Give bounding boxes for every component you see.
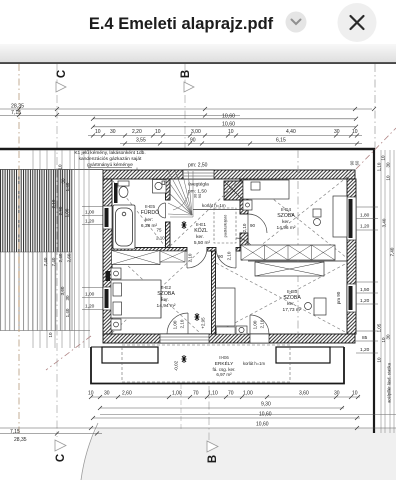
bottom dimension ticks (55, 395, 360, 436)
svg-text:2,60: 2,60 (67, 253, 72, 262)
window left wall upper (fürdő) (103, 206, 112, 229)
svg-text:6,15: 6,15 (276, 138, 286, 144)
door közl to II-E3 (lower right) (216, 248, 236, 268)
svg-text:14,94 m²: 14,94 m² (157, 303, 176, 309)
svg-text:7,40: 7,40 (43, 257, 48, 266)
bathtub (113, 205, 135, 249)
chimney K1 (224, 181, 243, 200)
svg-text:75: 75 (157, 228, 163, 233)
K1 chimney note (74, 150, 145, 168)
svg-text:K1 jelű kémény, lakásonként 1d: K1 jelű kémény, lakásonként 1db. (74, 150, 145, 156)
wardrobe II-E4 (241, 245, 335, 260)
sliding balcony door opening (bottom wall, II-E2) (160, 334, 209, 343)
interior wall fürdő/stair vertical upper (166, 179, 171, 200)
wardrobe II-E3 (255, 262, 324, 276)
level marker +2,95 (195, 313, 200, 321)
svg-text:30: 30 (110, 129, 116, 135)
svg-text:SZOBA: SZOBA (277, 213, 295, 219)
diagonal II-E2 b (112, 251, 200, 333)
window dim 1,50/1,20 (356, 282, 378, 304)
grid marker C top (56, 70, 68, 92)
bottom wall (103, 334, 355, 343)
door fürdő (in vertical wall) (158, 203, 166, 218)
radiator II-E2 (106, 271, 111, 281)
diagonal II-E4 secondary (248, 179, 347, 258)
svg-text:2,10: 2,10 (51, 199, 56, 208)
roof eaves heavy line (0, 148, 375, 150)
interior wall horizontal stub between doors (207, 248, 216, 252)
glass block opening in top wall (üvegtégla) (183, 170, 214, 179)
svg-text:ERKÉLY: ERKÉLY (215, 360, 234, 367)
desk II-E4 (313, 196, 347, 237)
svg-text:kandenzációs gázkazán saját: kandenzációs gázkazán saját (79, 156, 142, 162)
grid line overdraw on roof hatch (tan) (18, 170, 20, 332)
svg-text:SZOBA: SZOBA (283, 295, 301, 301)
cabinet II-E3 left (216, 288, 236, 334)
svg-text:30: 30 (386, 334, 391, 340)
window right wall upper (II-E4) (347, 197, 356, 240)
svg-text:1,40: 1,40 (65, 308, 70, 317)
right vertical dimension chain (381, 150, 394, 433)
svg-text:3,40: 3,40 (382, 218, 387, 227)
diagonal stair area (170, 181, 239, 246)
window right wall lower (II-E3) (347, 284, 356, 312)
roof hatch sparse (left lower) (0, 252, 72, 331)
svg-text:1,00: 1,00 (85, 210, 95, 216)
diagonal II-E3 a (216, 263, 347, 333)
grid marker B bottom (207, 441, 219, 463)
grid marker C bottom (55, 440, 67, 462)
svg-text:7,40: 7,40 (51, 257, 56, 266)
diagonal II-E2 a (112, 251, 200, 333)
grid line C (56, 64, 58, 437)
svg-text:-0,02: -0,02 (174, 360, 179, 371)
svg-text:+2,95: +2,95 (201, 317, 206, 329)
svg-text:3,55: 3,55 (136, 138, 146, 144)
svg-text:padlásfeljáró: padlásfeljáró (223, 214, 228, 237)
svg-text:9,30: 9,30 (261, 402, 271, 408)
svg-text:90: 90 (250, 223, 256, 228)
washing machine (153, 180, 167, 194)
svg-text:II-E6: II-E6 (219, 355, 229, 360)
svg-text:30: 30 (334, 391, 340, 397)
svg-text:10: 10 (228, 129, 234, 135)
svg-text:üvegtégla: üvegtégla (188, 182, 209, 188)
svg-text:1,20: 1,20 (360, 298, 370, 304)
svg-text:C: C (55, 454, 67, 462)
svg-text:acélpillér lásd. statika: acélpillér lásd. statika (387, 362, 392, 402)
svg-text:10: 10 (88, 391, 94, 397)
svg-text:5,50 m²: 5,50 m² (194, 240, 211, 246)
svg-text:1,20: 1,20 (360, 347, 370, 353)
svg-text:1,00: 1,00 (85, 292, 95, 298)
planter block right (276, 347, 330, 363)
diagonal II-E3 b (216, 263, 347, 333)
door II-E3 to balcony (250, 315, 269, 334)
svg-text:10,60: 10,60 (256, 422, 269, 428)
left dimension rotated labels (43, 164, 72, 338)
left wall (103, 179, 112, 334)
svg-text:1,00: 1,00 (243, 391, 253, 397)
viewer top bar (0, 0, 396, 44)
svg-text:10: 10 (386, 175, 391, 181)
toilet (118, 181, 129, 198)
svg-text:1,10: 1,10 (377, 162, 382, 171)
svg-text:3,60: 3,60 (299, 391, 309, 397)
balcony dashed outline (122, 345, 290, 382)
svg-text:3,00: 3,00 (191, 129, 201, 135)
svg-text:30: 30 (65, 295, 70, 301)
svg-text:1,40: 1,40 (65, 182, 70, 191)
svg-text:17,73 m²: 17,73 m² (283, 307, 302, 313)
svg-text:30: 30 (334, 129, 340, 135)
svg-text:90: 90 (197, 193, 202, 198)
svg-text:7,15: 7,15 (11, 110, 21, 116)
dash-dot bottom-left outside (46, 336, 91, 370)
svg-text:3,60: 3,60 (60, 286, 65, 295)
door II-E4 (248, 214, 267, 233)
svg-text:6,97 m²: 6,97 m² (216, 372, 232, 377)
svg-text:ker.: ker. (287, 301, 295, 307)
window dim 1,80/1,20 (356, 207, 378, 230)
svg-text:2,20: 2,20 (132, 129, 142, 135)
room II-E3 SZOBA (283, 289, 302, 313)
svg-text:1,20: 1,20 (85, 219, 95, 225)
svg-text:10: 10 (48, 332, 53, 338)
svg-text:korlát h=1m: korlát h=1m (243, 361, 266, 366)
svg-text:14,96 m²: 14,96 m² (277, 225, 296, 231)
svg-text:1,20: 1,20 (360, 224, 370, 230)
svg-text:korlát h=1m: korlát h=1m (202, 203, 226, 208)
room II-E5 FÜRDŐ (141, 204, 159, 229)
left window dims 1,00 / 1,20 (lower) (82, 288, 103, 310)
room II-E1 KÖZL (194, 222, 211, 246)
roof eaves heavy line right vertical (373, 148, 375, 433)
right wall (347, 179, 356, 334)
grid line B lower faint (180, 384, 182, 430)
radiator (114, 183, 118, 203)
svg-text:1,80: 1,80 (360, 213, 370, 219)
level marker KÖZL (182, 221, 187, 229)
interior wall stair/II-E4 vertical upper (240, 179, 248, 214)
interior wall fürdő/stair vertical lower (166, 222, 171, 251)
svg-text:pm 90: pm 90 (336, 291, 341, 304)
chevron button (286, 12, 307, 33)
svg-text:B: B (180, 70, 192, 78)
planter block left (102, 347, 158, 363)
door II-E3 upper (236, 238, 255, 257)
interior wall fürdő+közl/II-E2 horizontal (112, 248, 187, 252)
svg-text:10: 10 (155, 129, 161, 135)
level marker -0,02 (182, 355, 187, 363)
svg-text:30: 30 (386, 162, 391, 168)
svg-text:1,00: 1,00 (173, 320, 178, 329)
railing korlát (193, 209, 243, 211)
wardrobe II-E2 (112, 251, 186, 265)
close button (338, 3, 377, 42)
svg-text:2,40: 2,40 (58, 253, 63, 262)
svg-text:10,60: 10,60 (222, 121, 235, 127)
bed II-E2 (111, 268, 161, 330)
svg-text:2,10: 2,10 (227, 251, 232, 260)
interior wall stair/II-E4 vertical lower (240, 233, 248, 248)
ridge dash-dot beyond top-right corner (356, 128, 396, 169)
svg-text:pm: 2,50: pm: 2,50 (188, 163, 208, 169)
svg-text:10,60: 10,60 (259, 412, 272, 418)
svg-text:2,10: 2,10 (242, 223, 247, 232)
svg-text:7,15: 7,15 (10, 429, 20, 435)
grid line C overdraw on roof hatch (56, 170, 58, 332)
svg-text:85: 85 (362, 335, 368, 341)
svg-text:10: 10 (377, 357, 382, 363)
svg-text:E.4 Emeleti alaprajz.pdf: E.4 Emeleti alaprajz.pdf (89, 15, 274, 33)
diagonal II-E4 main (240, 170, 356, 262)
svg-text:2,10: 2,10 (156, 236, 165, 241)
grid line B (top) (184, 64, 186, 149)
svg-text:2,10: 2,10 (180, 319, 185, 328)
bed II-E4 (243, 180, 289, 210)
room II-E2 SZOBA (157, 285, 176, 309)
left window dims 1,00 / 1,20 (upper) (82, 207, 103, 225)
svg-text:10: 10 (381, 155, 386, 161)
svg-text:70: 70 (193, 391, 199, 397)
svg-text:2,60: 2,60 (122, 391, 132, 397)
svg-text:70: 70 (228, 391, 234, 397)
svg-text:2,10: 2,10 (188, 253, 193, 262)
diagonal fürdő (113, 181, 165, 246)
desk II-E3 (305, 298, 327, 315)
svg-text:ker:: ker: (145, 217, 153, 223)
svg-text:10: 10 (58, 164, 63, 170)
svg-text:28,35: 28,35 (11, 104, 24, 110)
svg-text:ker.: ker. (196, 234, 204, 240)
svg-text:10,60: 10,60 (222, 113, 235, 119)
svg-text:7,40: 7,40 (390, 247, 395, 256)
svg-text:C: C (56, 70, 68, 78)
svg-text:1,20: 1,20 (85, 304, 95, 310)
interior wall horizontal stub right (236, 248, 240, 252)
bottom grey region right of site arc (81, 429, 396, 480)
svg-text:1,05: 1,05 (377, 323, 382, 332)
svg-text:6,38 m²: 6,38 m² (141, 223, 158, 229)
ridge line vertical dash-dot through II-E4 (297, 150, 299, 343)
interior wall II-E2/II-E3 vertical thin (212, 251, 216, 334)
svg-text:1,00: 1,00 (65, 208, 70, 217)
svg-text:1,00: 1,00 (172, 391, 182, 397)
svg-text:ker.: ker. (282, 219, 290, 225)
top wall (103, 170, 355, 179)
svg-text:KÖZL: KÖZL (194, 227, 208, 234)
grid marker B top (180, 70, 194, 92)
svg-text:2,90: 2,90 (58, 206, 63, 215)
wall line II-E4 / II-E3 (248, 260, 347, 262)
window dim 85/1,20 (356, 331, 378, 353)
svg-text:1,00: 1,00 (253, 320, 258, 329)
svg-text:10: 10 (95, 129, 101, 135)
attic hatch padlásfeljáró (dashed) (214, 208, 236, 243)
svg-text:1,10: 1,10 (208, 391, 218, 397)
room II-E4 SZOBA (277, 207, 296, 231)
svg-text:1,50: 1,50 (360, 287, 370, 293)
svg-text:30: 30 (104, 391, 110, 397)
dimension tick marks top (17, 107, 376, 146)
grid line (tan, left) (18, 64, 20, 434)
svg-text:60: 60 (355, 160, 360, 165)
washbasin II-E3 corner (236, 326, 247, 334)
room II-E6 ERKÉLY labels (212, 355, 235, 377)
balcony door II-E2 (167, 313, 188, 334)
door közl to II-E2 (lower left) (187, 248, 207, 268)
terrace top edge lines (91, 346, 103, 348)
eave grid dash above roof corner (374, 64, 376, 148)
site boundary arc (81, 423, 98, 480)
svg-text:2,10: 2,10 (260, 319, 265, 328)
svg-text:pm: 1,50: pm: 1,50 (188, 189, 207, 195)
left dimension chain verticals (33, 150, 89, 348)
grid line B (bottom, shifted) (208, 386, 210, 440)
svg-text:B: B (207, 455, 219, 463)
top dimension row 28,35 (0, 109, 372, 144)
window left wall lower (II-E2) (103, 287, 112, 310)
terrace outer frame (91, 347, 344, 384)
svg-text:28,35: 28,35 (14, 437, 27, 443)
svg-text:ker.: ker. (161, 297, 169, 303)
balcony door opening (bottom wall, II-E3) (250, 334, 269, 343)
roof hatch dense (left) (0, 170, 72, 253)
svg-text:4,40: 4,40 (286, 129, 296, 135)
svg-text:FÜRDŐ: FÜRDŐ (141, 209, 159, 216)
svg-text:SZOBA: SZOBA (157, 291, 175, 297)
